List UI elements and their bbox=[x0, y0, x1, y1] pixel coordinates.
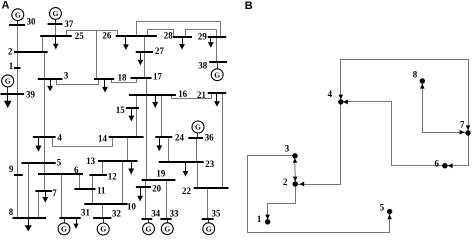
svg-text:5: 5 bbox=[380, 202, 385, 212]
svg-text:2: 2 bbox=[283, 177, 288, 187]
svg-text:G: G bbox=[100, 225, 106, 234]
svg-text:34: 34 bbox=[151, 209, 160, 219]
svg-text:22: 22 bbox=[182, 186, 191, 196]
svg-text:29: 29 bbox=[198, 32, 207, 42]
svg-text:16: 16 bbox=[178, 89, 187, 99]
svg-text:30: 30 bbox=[27, 17, 36, 27]
svg-text:G: G bbox=[15, 10, 21, 19]
svg-text:36: 36 bbox=[205, 133, 214, 143]
svg-text:G: G bbox=[195, 123, 201, 132]
svg-text:6: 6 bbox=[74, 165, 79, 175]
svg-text:25: 25 bbox=[75, 31, 84, 41]
svg-text:8: 8 bbox=[9, 207, 14, 217]
svg-text:39: 39 bbox=[26, 90, 35, 100]
svg-text:3: 3 bbox=[64, 70, 69, 80]
svg-text:10: 10 bbox=[127, 201, 136, 211]
svg-text:7: 7 bbox=[52, 188, 57, 198]
svg-text:17: 17 bbox=[153, 71, 162, 81]
svg-text:G: G bbox=[53, 9, 59, 18]
svg-text:5: 5 bbox=[57, 157, 62, 167]
svg-text:G: G bbox=[5, 77, 11, 86]
svg-text:3: 3 bbox=[285, 144, 290, 154]
svg-text:26: 26 bbox=[102, 31, 111, 41]
svg-text:4: 4 bbox=[57, 132, 62, 142]
svg-text:27: 27 bbox=[155, 46, 164, 56]
svg-text:23: 23 bbox=[205, 159, 214, 169]
svg-text:1: 1 bbox=[9, 61, 13, 71]
svg-text:15: 15 bbox=[116, 105, 125, 115]
svg-text:1: 1 bbox=[257, 214, 261, 224]
svg-text:7: 7 bbox=[460, 120, 465, 130]
svg-text:G: G bbox=[61, 225, 67, 234]
svg-text:12: 12 bbox=[108, 171, 117, 181]
svg-text:24: 24 bbox=[175, 132, 184, 142]
svg-text:2: 2 bbox=[8, 47, 13, 57]
svg-text:11: 11 bbox=[97, 186, 105, 196]
svg-text:38: 38 bbox=[198, 61, 207, 71]
svg-text:35: 35 bbox=[212, 209, 221, 219]
svg-text:G: G bbox=[214, 70, 220, 79]
svg-text:13: 13 bbox=[86, 156, 95, 166]
svg-text:4: 4 bbox=[328, 89, 333, 99]
svg-text:33: 33 bbox=[170, 209, 179, 219]
svg-text:32: 32 bbox=[112, 208, 121, 218]
svg-text:G: G bbox=[146, 224, 152, 233]
svg-text:28: 28 bbox=[164, 30, 173, 40]
svg-text:18: 18 bbox=[118, 73, 127, 83]
svg-text:B: B bbox=[245, 0, 253, 12]
svg-text:20: 20 bbox=[152, 183, 161, 193]
svg-text:A: A bbox=[2, 0, 10, 12]
svg-text:G: G bbox=[164, 224, 170, 233]
svg-text:9: 9 bbox=[9, 164, 14, 174]
svg-text:8: 8 bbox=[413, 70, 418, 80]
svg-text:31: 31 bbox=[81, 208, 90, 218]
svg-text:14: 14 bbox=[98, 134, 107, 144]
svg-text:19: 19 bbox=[156, 169, 165, 179]
svg-text:G: G bbox=[206, 224, 212, 233]
svg-text:37: 37 bbox=[64, 19, 73, 29]
svg-text:6: 6 bbox=[435, 158, 440, 168]
svg-text:21: 21 bbox=[197, 90, 206, 100]
